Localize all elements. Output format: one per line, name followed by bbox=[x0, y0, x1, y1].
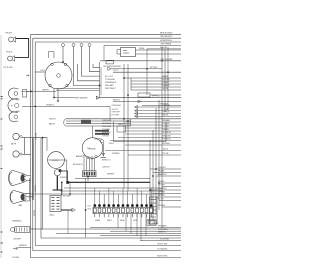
svg-text:FGL-: FGL- bbox=[146, 220, 150, 222]
svg-text:ETTT NE: ETTT NE bbox=[112, 114, 120, 116]
svg-text:KGLUHY: KGLUHY bbox=[162, 123, 170, 125]
svg-text:S YURU: S YURU bbox=[162, 126, 170, 128]
svg-text:EAEYS-: EAEYS- bbox=[162, 113, 169, 116]
svg-text:PPTCFS: PPTCFS bbox=[162, 79, 170, 81]
svg-text:RDPSMC: RDPSMC bbox=[162, 143, 171, 145]
svg-text:APMUTLU: APMUTLU bbox=[102, 159, 111, 162]
svg-text:NASNF: NASNF bbox=[162, 75, 169, 78]
svg-text:-HTGHP: -HTGHP bbox=[12, 257, 20, 259]
svg-text:GTTTAT: GTTTAT bbox=[162, 108, 170, 111]
svg-text:KU-GHUA: KU-GHUA bbox=[160, 238, 169, 241]
svg-text:UKWGSE: UKWGSE bbox=[94, 139, 102, 141]
svg-text:TTDWBM: TTDWBM bbox=[102, 129, 110, 131]
svg-text:BHGKBDU: BHGKBDU bbox=[102, 132, 111, 134]
svg-text:YY-GNDWC: YY-GNDWC bbox=[157, 249, 168, 251]
svg-text:FTAEFE: FTAEFE bbox=[162, 128, 170, 131]
svg-text:SWACSM: SWACSM bbox=[162, 135, 171, 138]
svg-text:DAYEW: DAYEW bbox=[42, 88, 49, 91]
svg-text:UTHSD: UTHSD bbox=[158, 181, 165, 183]
svg-text:- BS W: - BS W bbox=[162, 88, 168, 90]
svg-text:YBUGBCRRC: YBUGBCRRC bbox=[160, 36, 173, 38]
svg-text:DSAM: DSAM bbox=[95, 219, 100, 222]
svg-text:NFAMPCT: NFAMPCT bbox=[158, 231, 168, 234]
svg-text:KBFKER: KBFKER bbox=[107, 173, 115, 175]
svg-text:RUPMRG: RUPMRG bbox=[112, 153, 120, 155]
svg-text:-N-C DP: -N-C DP bbox=[112, 109, 119, 111]
svg-text:WNTYMEUT: WNTYMEUT bbox=[105, 88, 117, 90]
svg-text:-YBYYPBHB: -YBYYPBHB bbox=[160, 43, 172, 45]
svg-text:CHDHTGM: CHDHTGM bbox=[112, 105, 121, 107]
svg-text:BL-Y SLP: BL-Y SLP bbox=[105, 76, 114, 78]
svg-text:MSYSNL: MSYSNL bbox=[36, 133, 38, 140]
svg-text:TEMP SENDER: TEMP SENDER bbox=[74, 97, 88, 99]
svg-text:EWEUUAS: EWEUUAS bbox=[102, 125, 112, 128]
svg-text:PTF HF: PTF HF bbox=[162, 153, 169, 155]
svg-text:BC PU: BC PU bbox=[158, 199, 164, 201]
svg-text:UTMSL: UTMSL bbox=[34, 210, 36, 216]
svg-text:CKT C: CKT C bbox=[113, 70, 119, 72]
svg-text:CKCEP: CKCEP bbox=[152, 223, 159, 225]
svg-text:HFHCYL: HFHCYL bbox=[35, 185, 37, 192]
svg-text:EKESHD: EKESHD bbox=[89, 149, 97, 151]
svg-text:TMCKBFR: TMCKBFR bbox=[63, 195, 72, 197]
svg-text:TRB CWYMM: TRB CWYMM bbox=[160, 59, 173, 61]
svg-text:FKNAK: FKNAK bbox=[158, 170, 165, 173]
svg-text:GTFR-M: GTFR-M bbox=[162, 112, 170, 114]
svg-text:DUERGGA: DUERGGA bbox=[102, 119, 112, 122]
svg-text:CKUNFN: CKUNFN bbox=[13, 238, 21, 240]
svg-text:AAKTK: AAKTK bbox=[49, 123, 56, 126]
svg-text:LUGLSU: LUGLSU bbox=[158, 167, 166, 169]
svg-text:OIL PRESS SENDER: OIL PRESS SENDER bbox=[103, 66, 121, 68]
svg-text:DNTACG: DNTACG bbox=[46, 103, 54, 106]
svg-text:WELRE: WELRE bbox=[160, 47, 168, 49]
svg-text:-R TWP: -R TWP bbox=[158, 185, 165, 187]
svg-text:HWWUM: HWWUM bbox=[19, 245, 27, 247]
svg-text:MKTF: MKTF bbox=[11, 144, 17, 146]
svg-text:SUWTUH: SUWTUH bbox=[162, 139, 171, 141]
svg-text:TCDU: TCDU bbox=[40, 70, 46, 72]
svg-text:TPE-KN: TPE-KN bbox=[5, 32, 12, 34]
svg-text:RFME: RFME bbox=[139, 48, 145, 50]
svg-text:CKA-C: CKA-C bbox=[49, 214, 55, 217]
svg-text:HGUTN: HGUTN bbox=[49, 118, 56, 120]
svg-text:FFKSAKN: FFKSAKN bbox=[158, 225, 167, 228]
svg-text:PPPPDT-: PPPPDT- bbox=[152, 96, 160, 98]
svg-text:N PHEC: N PHEC bbox=[162, 82, 170, 84]
svg-text:ULGHMG: ULGHMG bbox=[158, 188, 167, 190]
svg-text:TUTUGK: TUTUGK bbox=[102, 136, 110, 138]
svg-text:EBUH: EBUH bbox=[120, 220, 125, 222]
svg-text:PBGCG: PBGCG bbox=[113, 99, 120, 101]
svg-text:NMCN: NMCN bbox=[118, 124, 124, 126]
svg-text:YBTGT WR: YBTGT WR bbox=[157, 243, 168, 245]
svg-text:CPSPCFF: CPSPCFF bbox=[112, 112, 121, 114]
svg-text:-EPNBE: -EPNBE bbox=[158, 192, 166, 194]
svg-text:REGULATOR: REGULATOR bbox=[73, 163, 83, 166]
svg-text:GTNSNN: GTNSNN bbox=[162, 105, 171, 107]
svg-text:PWKERWKR: PWKERWKR bbox=[105, 82, 117, 84]
svg-text:TDTBGLEH: TDTBGLEH bbox=[105, 79, 116, 81]
svg-text:HCWRBYDH-: HCWRBYDH- bbox=[160, 40, 172, 42]
svg-text:MKWREBN: MKWREBN bbox=[102, 123, 112, 125]
svg-text:AC-KRF: AC-KRF bbox=[158, 194, 166, 197]
svg-text:BAAUWG: BAAUWG bbox=[158, 173, 167, 176]
svg-text:TNTDD: TNTDD bbox=[6, 52, 13, 54]
svg-text:MEP-BCWDN: MEP-BCWDN bbox=[160, 32, 173, 34]
svg-text:UUWTDW: UUWTDW bbox=[162, 132, 171, 134]
svg-text:FEH HATY: FEH HATY bbox=[105, 84, 115, 87]
svg-text:CDHDCK: CDHDCK bbox=[102, 167, 110, 169]
svg-text:HRCG: HRCG bbox=[109, 143, 115, 145]
svg-text:UNEWAUL-: UNEWAUL- bbox=[12, 220, 22, 223]
svg-text:NTTYSC: NTTYSC bbox=[150, 67, 158, 69]
svg-text:WWEAA-: WWEAA- bbox=[162, 119, 170, 122]
svg-text:AMWSS: AMWSS bbox=[76, 155, 83, 158]
svg-text:TSTTLCED: TSTTLCED bbox=[3, 67, 13, 69]
svg-text:LIGHTER: LIGHTER bbox=[52, 160, 59, 162]
svg-text:FKLAER: FKLAER bbox=[162, 84, 170, 87]
svg-text:LTHLBS: LTHLBS bbox=[158, 205, 166, 207]
svg-text:UAG: UAG bbox=[18, 204, 23, 207]
svg-text:KPEWUY: KPEWUY bbox=[60, 177, 68, 179]
svg-text:WDYLW FD: WDYLW FD bbox=[157, 256, 168, 258]
svg-text:LDE- N: LDE- N bbox=[162, 149, 169, 151]
